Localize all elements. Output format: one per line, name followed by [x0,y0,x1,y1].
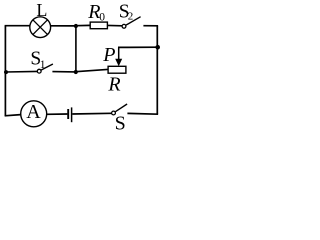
svg-text:1: 1 [40,59,46,71]
switch S pivot [112,111,116,115]
wire: battery to switch S [72,112,111,115]
svg-text:0: 0 [99,12,105,24]
rheostat R box [108,66,126,73]
wire: ammeter to battery [47,113,68,115]
wire: S to bottom right corner [127,112,158,115]
wire: S1 to middle junction [52,71,75,73]
wire: lamp to junction node [50,25,76,27]
svg-text:S: S [115,113,126,130]
wire: wiper to right rail [118,46,158,48]
resistor R0 [90,22,107,29]
switch S2 blade [126,17,141,26]
battery positive plate (long) [71,107,73,122]
ammeter A [21,101,47,127]
wire: vertical branch [75,26,77,72]
battery negative plate (short) [67,109,69,119]
node: middle junction [74,70,78,74]
wire: left rail [4,26,6,116]
node: junction on left rail [4,70,8,74]
wire: bottom rail corner to ammeter [5,115,21,116]
svg-text:R: R [107,73,120,95]
wire: resistor to switch S2 [108,24,122,26]
lamp L [30,17,51,38]
wire: S2 to top right corner [143,25,158,27]
switch S1 blade [41,64,53,70]
wire: top rail corner to lamp [5,25,31,27]
switch S blade [115,104,127,112]
svg-text:L: L [36,0,47,20]
switch S1 pivot [37,69,41,73]
rheostat wiper arrowhead [115,59,122,67]
svg-text:A: A [26,101,41,123]
wire: junction to resistor R0 [76,24,90,26]
node: top junction [74,24,78,28]
svg-text:2: 2 [128,11,134,23]
switch S2 pivot [122,24,126,28]
wire: junction to rheostat [76,69,108,71]
wire: middle rail left to S1 [5,70,37,73]
svg-text:P: P [102,44,115,66]
node: junction on right rail [155,45,160,50]
wire: right rail [156,26,158,115]
rheostat wiper shaft P [118,47,120,60]
